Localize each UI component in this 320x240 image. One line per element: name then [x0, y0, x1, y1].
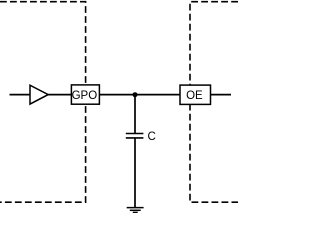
- svg-text:C: C: [148, 131, 156, 143]
- svg-text:GPO: GPO: [72, 90, 98, 102]
- svg-text:OE: OE: [186, 90, 203, 102]
